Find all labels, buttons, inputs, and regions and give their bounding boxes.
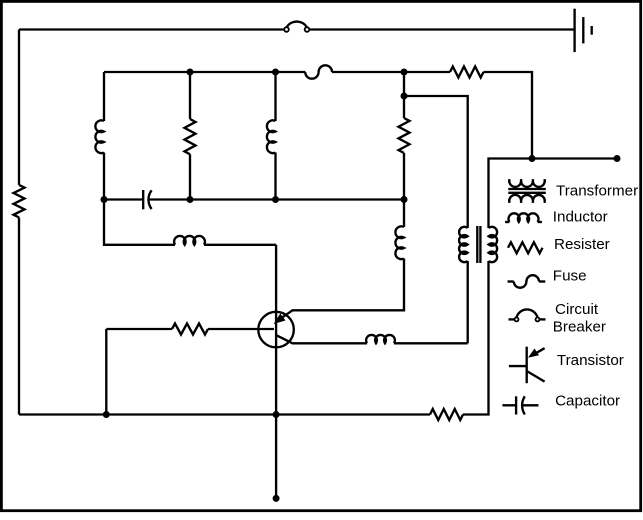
svg-text:Fuse: Fuse	[553, 268, 587, 285]
svg-text:Transistor: Transistor	[557, 352, 624, 369]
svg-text:Circuit: Circuit	[555, 301, 599, 318]
svg-text:Resister: Resister	[554, 236, 610, 253]
svg-text:Inductor: Inductor	[553, 208, 608, 225]
svg-text:Transformer: Transformer	[556, 183, 638, 200]
svg-text:Breaker: Breaker	[553, 319, 606, 336]
svg-text:Capacitor: Capacitor	[555, 393, 620, 410]
